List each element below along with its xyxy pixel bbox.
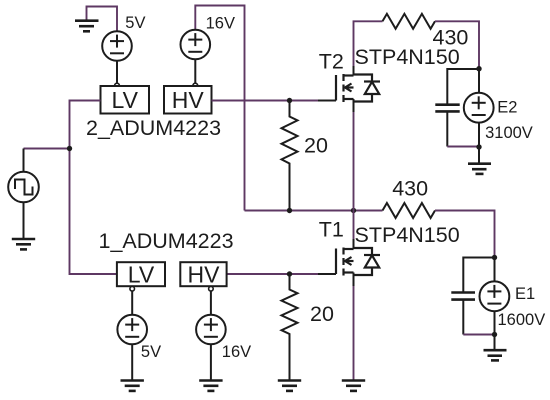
resistor R2 430 [383,203,436,218]
svg-text:20: 20 [304,134,328,158]
pin LV top [115,83,120,88]
svg-text:1_ADUM4223: 1_ADUM4223 [99,229,234,253]
ground [121,381,144,391]
wire [212,100,319,102]
voltage source V2 16V [181,30,211,83]
wire T2 source lead [353,99,355,112]
pin HV top [193,83,198,88]
wire T1 gate lead [318,273,336,275]
wire [24,148,70,150]
wire T1 drain lead [353,239,355,248]
wire T2 gate lead [318,100,336,102]
wire T1 gate [227,273,318,275]
svg-text:HV: HV [172,87,205,113]
pin LV bottom [130,287,135,292]
svg-text:5V: 5V [141,343,161,361]
svg-text:16V: 16V [206,15,235,33]
HV box [180,262,226,286]
ground [75,21,99,32]
svg-text:430: 430 [433,26,469,50]
node I (E1 minus) [492,332,497,337]
pin HV bottom [209,287,214,292]
capacitor C2 (E2 bypass) [447,69,479,147]
svg-text:LV: LV [112,87,139,113]
HV box [164,86,212,114]
svg-text:E2: E2 [497,99,517,117]
wire T2 drain lead [353,66,355,75]
ground [484,335,507,361]
svg-text:HV: HV [188,262,221,288]
wire [435,21,479,68]
svg-text:E1: E1 [515,285,535,303]
svg-text:1600V: 1600V [498,311,546,329]
wire [245,210,383,212]
voltage source V3 5V bottom [117,291,147,380]
transistor T1 STP4N150 [336,248,380,276]
wire [70,101,117,275]
wire [447,146,479,148]
resistor R1 430 [383,14,436,29]
transistor T2 STP4N150 [336,74,380,102]
node H (E1 plus) [492,255,497,260]
svg-text:430: 430 [392,177,428,201]
svg-text:LV: LV [128,262,155,288]
node C (switch node / R3) [287,208,292,213]
ground [12,239,35,249]
wire [463,334,494,336]
wire [435,211,495,258]
svg-text:16V: 16V [222,343,251,361]
LV box [101,86,150,114]
ground [199,381,222,391]
square-wave source V5 [8,149,39,239]
resistor R4 20 [282,274,298,380]
svg-text:T2: T2 [319,50,344,74]
node B (T2 gate) [287,98,292,103]
wire [87,7,118,32]
wire T1 source lead [353,273,355,287]
LV box [117,262,165,286]
voltage source E2 [464,69,494,147]
svg-text:T1: T1 [319,218,344,242]
ground [278,381,301,391]
node A (input net) [67,146,72,151]
node G (E2 minus) [476,144,481,149]
resistor R3 20 (gate-source T2) [282,101,298,211]
svg-text:20: 20 [310,302,334,326]
wire [195,6,244,211]
node F (E2 plus) [476,66,481,71]
node E (T1 gate / R4) [287,271,292,276]
svg-text:2_ADUM4223: 2_ADUM4223 [86,116,221,140]
voltage source V1 5V [102,31,132,83]
svg-text:STP4N150: STP4N150 [355,223,460,247]
node D (T2 source / T1 drain) [351,208,356,213]
capacitor C1 (E1 bypass) [463,258,494,335]
svg-text:5V: 5V [125,14,145,32]
ground [468,147,491,174]
voltage source E1 [480,258,510,335]
voltage source V4 16V bottom [196,291,226,380]
svg-text:3100V: 3100V [485,124,533,142]
ground [342,381,365,391]
